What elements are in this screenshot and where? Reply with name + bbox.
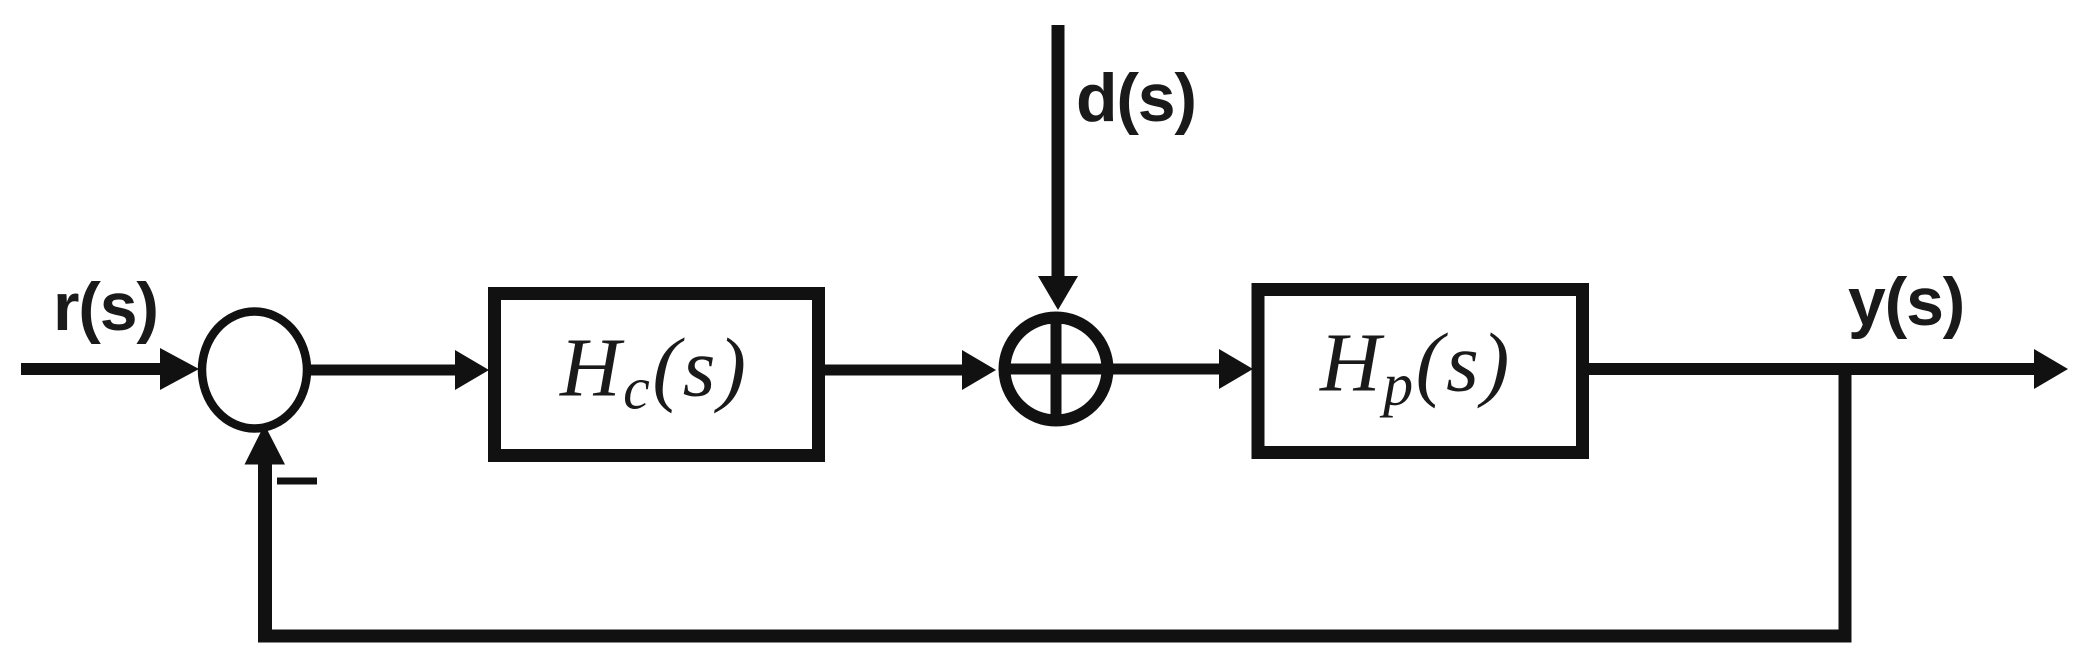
- wire feedback bottom horizontal: [259, 630, 1852, 643]
- summing junction S1: [202, 312, 307, 429]
- S2 cross vertical bar: [1051, 313, 1062, 425]
- arrowhead into block Hp: [1219, 349, 1253, 389]
- arrowhead into summing junction S2: [962, 350, 996, 390]
- arrowhead output: [2034, 349, 2068, 389]
- arrowhead into summing junction S1: [160, 348, 199, 390]
- svg-text:d(s): d(s): [1076, 60, 1196, 136]
- summing junction S2 (plus): [1005, 318, 1108, 421]
- arrowhead d(s) into S2: [1038, 276, 1078, 310]
- wire feedback right vertical: [1839, 369, 1852, 643]
- wire output y(s): [1589, 363, 2042, 375]
- svg-text:Hp(s): Hp(s): [1319, 317, 1512, 418]
- wire S2 to block Hp: [1112, 364, 1226, 375]
- arrowhead into block Hc: [455, 350, 489, 390]
- wire S1 to block Hc: [307, 365, 462, 376]
- wire feedback left vertical: [258, 460, 272, 643]
- S2 cross horizontal bar: [1000, 364, 1112, 375]
- wire Hc to summing junction S2: [825, 365, 968, 376]
- block Hp: [1258, 290, 1583, 453]
- svg-text:Hc(s): Hc(s): [559, 322, 748, 422]
- wire d(s) disturbance input: [1052, 25, 1065, 282]
- svg-text:y(s): y(s): [1848, 264, 1964, 340]
- svg-text:r(s): r(s): [53, 269, 158, 345]
- block Hc: [495, 294, 819, 456]
- arrowhead feedback into S1: [245, 425, 286, 465]
- minus sign at S1 feedback input: [277, 478, 317, 485]
- wire r(s) input: [21, 363, 172, 375]
